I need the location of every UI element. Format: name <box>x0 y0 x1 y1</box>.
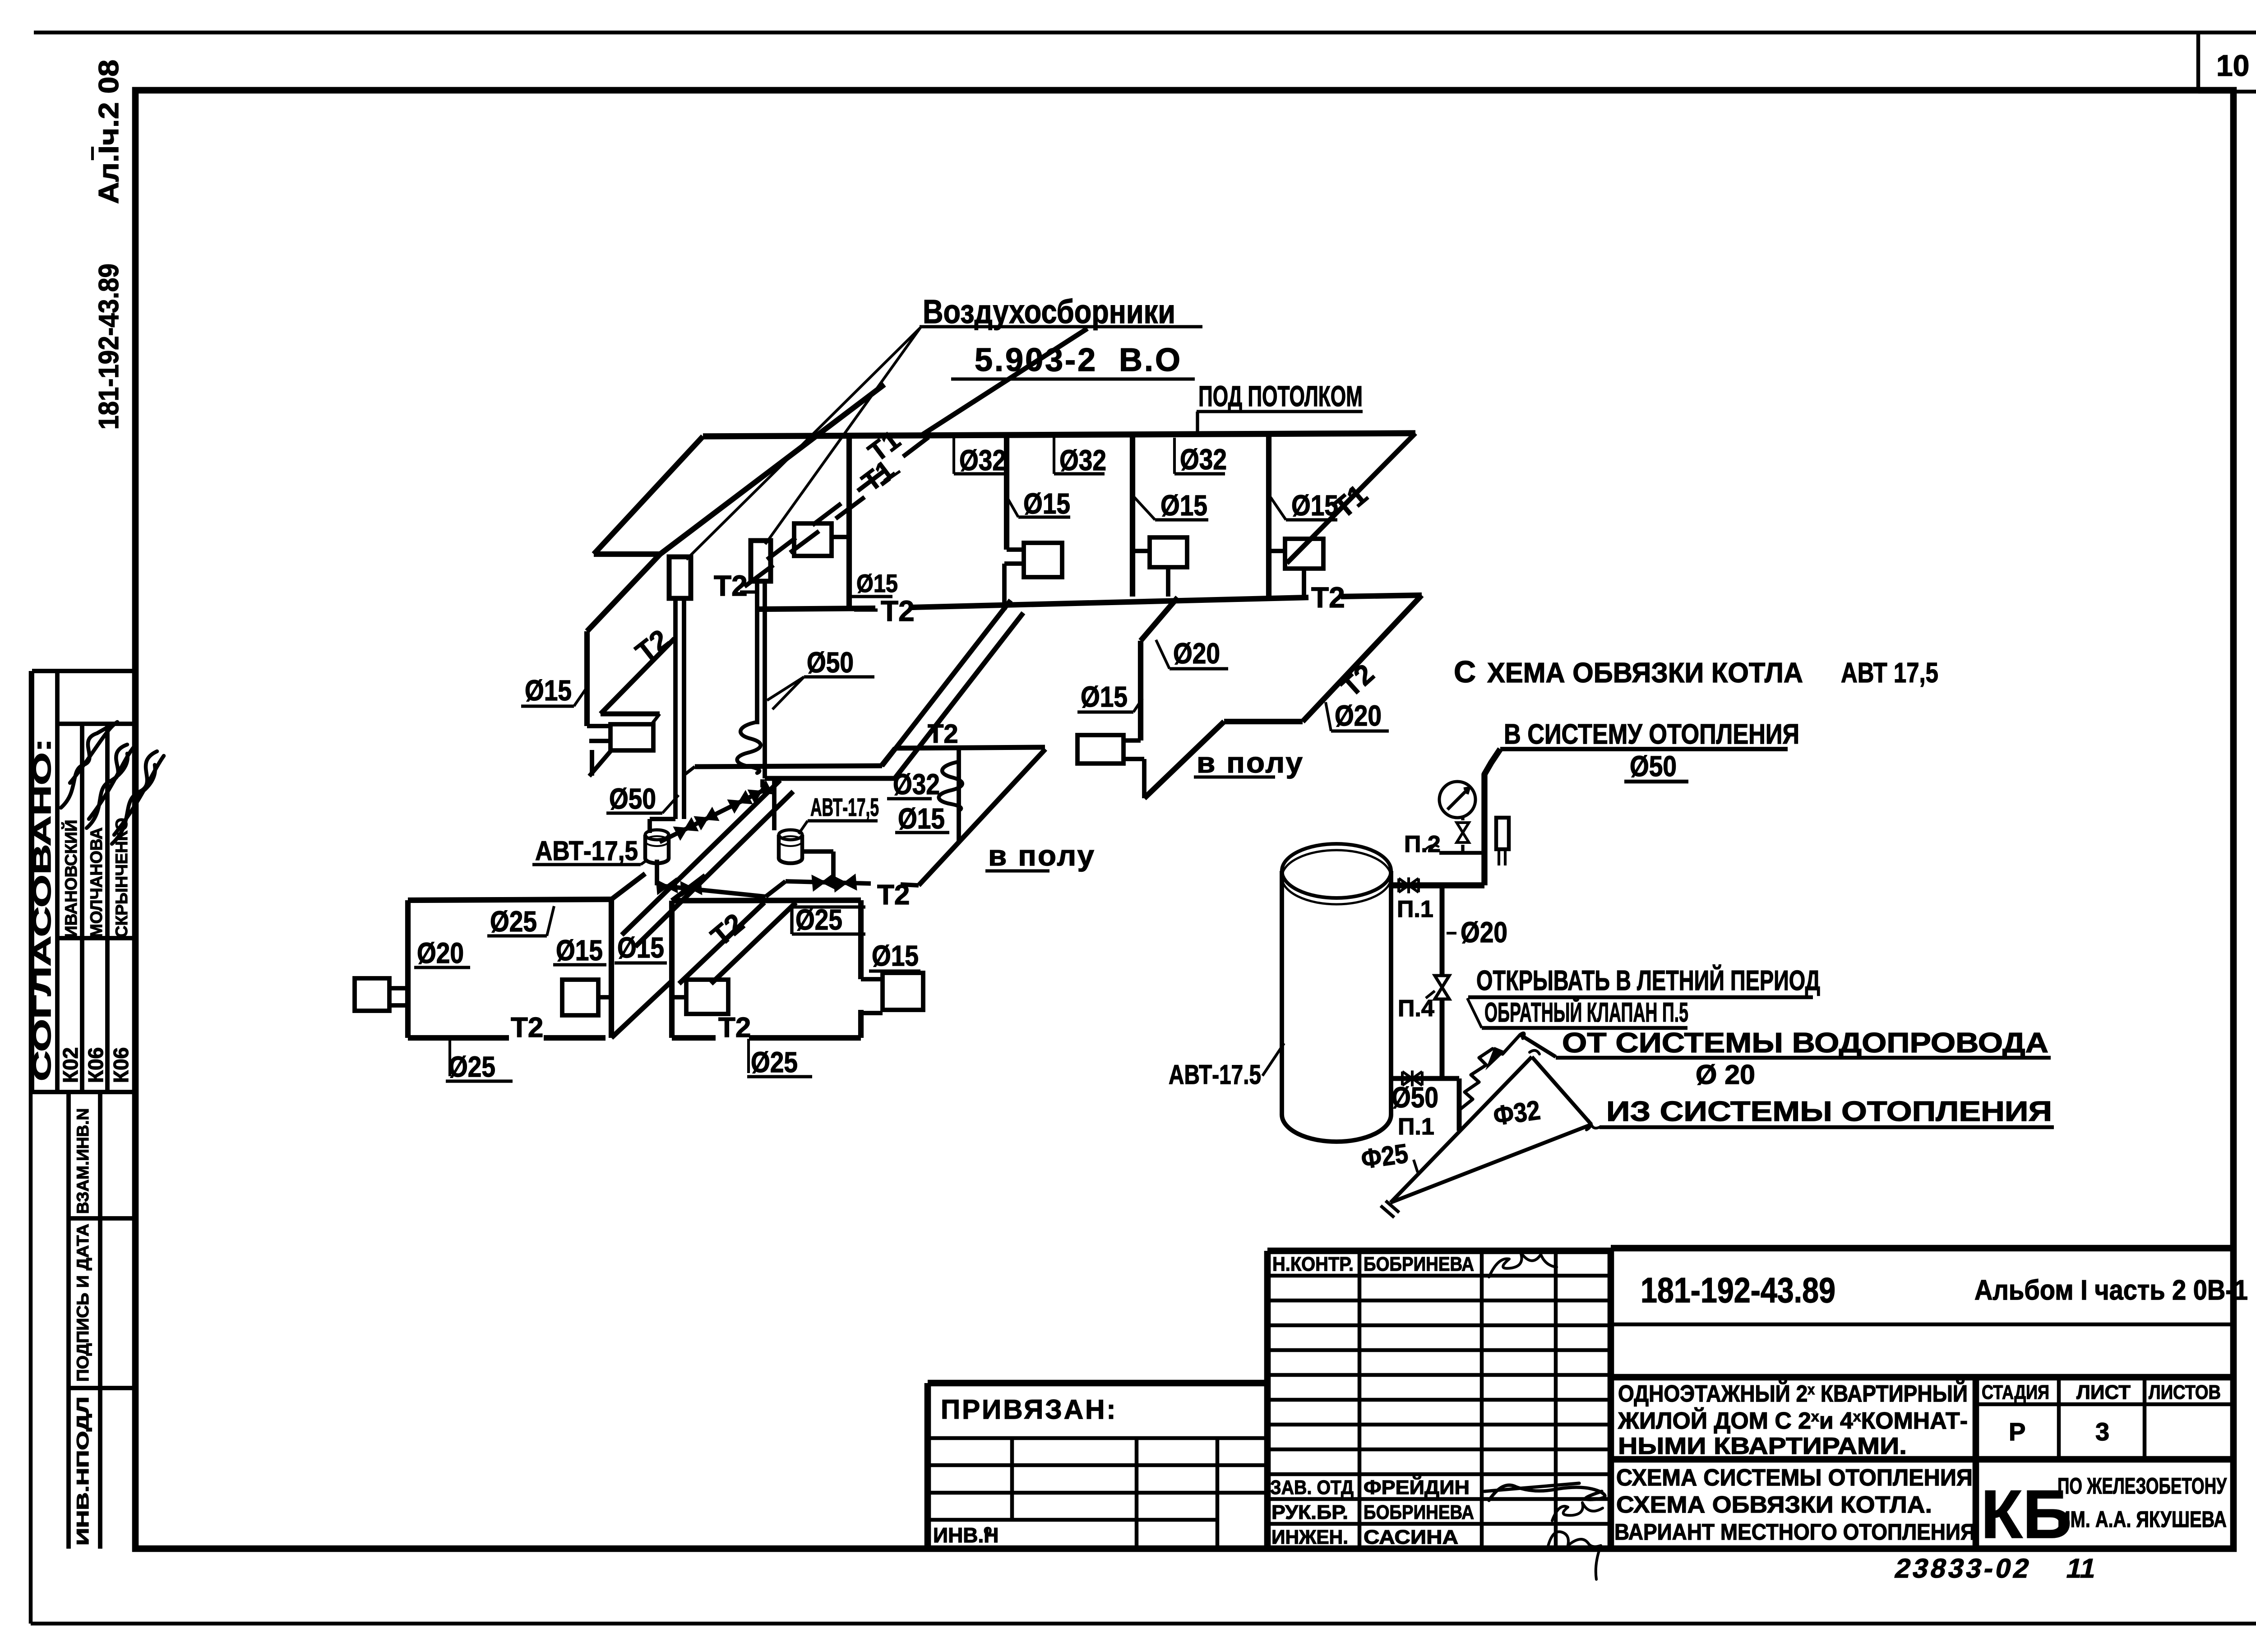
svg-text:Ø15: Ø15 <box>1291 489 1338 522</box>
svg-text:Ø20: Ø20 <box>1335 699 1382 732</box>
svg-text:ЛИСТ: ЛИСТ <box>2076 1381 2131 1403</box>
svg-text:ИВАНОВСКИЙ: ИВАНОВСКИЙ <box>61 820 80 938</box>
svg-text:Ø20: Ø20 <box>1461 916 1507 949</box>
svg-text:БОБРИНЕВА: БОБРИНЕВА <box>1364 1501 1474 1523</box>
svg-text:П.2: П.2 <box>1404 831 1441 857</box>
svg-text:Т2: Т2 <box>714 569 748 602</box>
svg-text:Ø32: Ø32 <box>893 768 940 801</box>
svg-text:ИНЖЕН.: ИНЖЕН. <box>1271 1526 1348 1548</box>
svg-text:АВТ-17,5: АВТ-17,5 <box>535 836 638 866</box>
svg-text:Ø15: Ø15 <box>898 802 945 835</box>
svg-text:Ø15: Ø15 <box>1081 680 1128 713</box>
svg-text:Ø15: Ø15 <box>617 931 664 964</box>
svg-text:Р: Р <box>2009 1417 2025 1446</box>
svg-text:Ф32: Ф32 <box>1491 1095 1542 1131</box>
svg-text:Ø15: Ø15 <box>1023 487 1070 520</box>
svg-text:СХЕМА СИСТЕМЫ ОТОПЛЕНИЯ: СХЕМА СИСТЕМЫ ОТОПЛЕНИЯ <box>1616 1465 1973 1491</box>
svg-text:5.903-2: 5.903-2 <box>975 342 1097 378</box>
svg-text:Ø32: Ø32 <box>959 444 1006 477</box>
svg-text:К06: К06 <box>84 1047 107 1083</box>
svg-text:о: о <box>984 1522 992 1537</box>
svg-text:П.1: П.1 <box>1397 896 1433 922</box>
svg-text:Н.КОНТР.: Н.КОНТР. <box>1272 1253 1354 1275</box>
svg-text:ОБРАТНЫЙ КЛАПАН П.5: ОБРАТНЫЙ КЛАПАН П.5 <box>1484 997 1688 1027</box>
svg-text:Т2: Т2 <box>877 879 910 911</box>
svg-text:Т2: Т2 <box>881 595 915 627</box>
svg-text:Т2: Т2 <box>511 1012 543 1043</box>
svg-text:АВТ 17,5: АВТ 17,5 <box>1841 657 1938 689</box>
svg-text:БОБРИНЕВА: БОБРИНЕВА <box>1364 1253 1474 1275</box>
svg-text:10: 10 <box>2216 49 2249 82</box>
svg-text:АВТ-17,5: АВТ-17,5 <box>810 793 879 821</box>
svg-text:Ø15: Ø15 <box>556 934 603 967</box>
svg-text:РУК.БР.: РУК.БР. <box>1271 1501 1348 1523</box>
svg-text:ПРИВЯЗАН:: ПРИВЯЗАН: <box>941 1394 1117 1425</box>
svg-text:В.О: В.О <box>1119 342 1182 378</box>
svg-text:НЫМИ КВАРТИРАМИ.: НЫМИ КВАРТИРАМИ. <box>1618 1433 1907 1459</box>
svg-text:Ø15: Ø15 <box>856 569 898 597</box>
svg-text:Ø15: Ø15 <box>872 939 919 972</box>
svg-text:в полу: в полу <box>1197 746 1304 779</box>
svg-text:В СИСТЕМУ ОТОПЛЕНИЯ: В СИСТЕМУ ОТОПЛЕНИЯ <box>1504 719 1799 750</box>
svg-text:С: С <box>1454 655 1476 689</box>
svg-text:ЛИСТОВ: ЛИСТОВ <box>2149 1381 2221 1403</box>
svg-text:Ø 20: Ø 20 <box>1696 1060 1755 1090</box>
svg-text:Т2: Т2 <box>1311 581 1345 614</box>
svg-text:Ø15: Ø15 <box>525 674 572 707</box>
svg-text:ВЗАМ.ИНВ.N: ВЗАМ.ИНВ.N <box>74 1108 92 1214</box>
svg-text:ВАРИАНТ МЕСТНОГО ОТОПЛЕНИЯ: ВАРИАНТ МЕСТНОГО ОТОПЛЕНИЯ <box>1614 1519 1975 1545</box>
svg-text:ОТ СИСТЕМЫ ВОДОПРОВОДА: ОТ СИСТЕМЫ ВОДОПРОВОДА <box>1562 1027 2048 1059</box>
svg-text:Воздухосборники: Воздухосборники <box>923 293 1175 330</box>
svg-text:СХЕМА ОБВЯЗКИ КОТЛА.: СХЕМА ОБВЯЗКИ КОТЛА. <box>1616 1492 1932 1518</box>
svg-text:181-192-43.89: 181-192-43.89 <box>93 264 125 430</box>
svg-text:Ø15: Ø15 <box>1160 489 1207 522</box>
svg-text:Ø32: Ø32 <box>1180 443 1227 476</box>
svg-text:Ø50: Ø50 <box>1392 1081 1438 1114</box>
svg-text:23833-02: 23833-02 <box>1892 1553 2035 1583</box>
svg-text:ОДНОЭТАЖНЫЙ 2х КВАРТИРНЫЙ: ОДНОЭТАЖНЫЙ 2х КВАРТИРНЫЙ <box>1618 1380 1968 1407</box>
svg-text:ФРЕЙДИН: ФРЕЙДИН <box>1364 1476 1470 1499</box>
svg-text:ИНВ.НПОДЛ: ИНВ.НПОДЛ <box>74 1397 92 1546</box>
svg-text:Альбом I часть 2 0В-1: Альбом I часть 2 0В-1 <box>1974 1275 2248 1306</box>
svg-text:Ø25: Ø25 <box>751 1046 798 1078</box>
svg-text:МОЛЧАНОВА: МОЛЧАНОВА <box>87 828 106 938</box>
svg-text:ИМ. А.А. ЯКУШЕВА: ИМ. А.А. ЯКУШЕВА <box>2057 1507 2227 1532</box>
svg-text:ХЕМА ОБВЯЗКИ КОТЛА: ХЕМА ОБВЯЗКИ КОТЛА <box>1487 657 1803 689</box>
svg-text:СТАДИЯ: СТАДИЯ <box>1982 1381 2049 1403</box>
svg-text:ЗАВ. ОТД: ЗАВ. ОТД <box>1270 1476 1354 1499</box>
svg-text:Ø50: Ø50 <box>1630 750 1677 782</box>
svg-text:Ø25: Ø25 <box>448 1050 495 1083</box>
svg-text:Т2: Т2 <box>718 1012 751 1043</box>
svg-text:Ал.Iч.2 08: Ал.Iч.2 08 <box>93 60 125 204</box>
svg-text:Ø20: Ø20 <box>1173 637 1220 670</box>
svg-text:К06: К06 <box>109 1047 133 1083</box>
svg-text:ИЗ СИСТЕМЫ ОТОПЛЕНИЯ: ИЗ СИСТЕМЫ ОТОПЛЕНИЯ <box>1606 1096 2052 1127</box>
svg-text:Ø20: Ø20 <box>417 937 464 969</box>
svg-text:Ф25: Ф25 <box>1359 1138 1410 1175</box>
svg-text:ПО ЖЕЛЕЗОБЕТОНУ: ПО ЖЕЛЕЗОБЕТОНУ <box>2057 1473 2227 1499</box>
svg-text:П.1: П.1 <box>1398 1114 1434 1140</box>
svg-text:К02: К02 <box>59 1047 82 1083</box>
svg-text:ОТКРЫВАТЬ В ЛЕТНИЙ ПЕРИОД: ОТКРЫВАТЬ В ЛЕТНИЙ ПЕРИОД <box>1476 965 1820 996</box>
svg-text:САСИНА: САСИНА <box>1364 1526 1458 1548</box>
svg-text:ПОДПИСЬ И ДАТА: ПОДПИСЬ И ДАТА <box>74 1224 92 1382</box>
svg-text:АВТ-17.5: АВТ-17.5 <box>1169 1060 1261 1090</box>
svg-text:ПОД ПОТОЛКОМ: ПОД ПОТОЛКОМ <box>1198 380 1363 412</box>
svg-text:Т2: Т2 <box>928 719 958 749</box>
svg-text:Ø25: Ø25 <box>490 905 537 938</box>
svg-text:Ø32: Ø32 <box>1059 444 1106 477</box>
svg-text:Ø50: Ø50 <box>807 646 854 679</box>
svg-text:СОГЛАСОВАНО:: СОГЛАСОВАНО: <box>28 738 56 1081</box>
svg-text:ЖИЛОЙ ДОМ С 2хи 4хКОМНАТ-: ЖИЛОЙ ДОМ С 2хи 4хКОМНАТ- <box>1618 1407 1968 1434</box>
svg-text:в полу: в полу <box>988 839 1096 872</box>
svg-text:3: 3 <box>2095 1417 2109 1446</box>
svg-text:181-192-43.89: 181-192-43.89 <box>1641 1270 1835 1310</box>
svg-text:Ø50: Ø50 <box>609 782 656 815</box>
svg-text:П.4: П.4 <box>1398 995 1434 1022</box>
